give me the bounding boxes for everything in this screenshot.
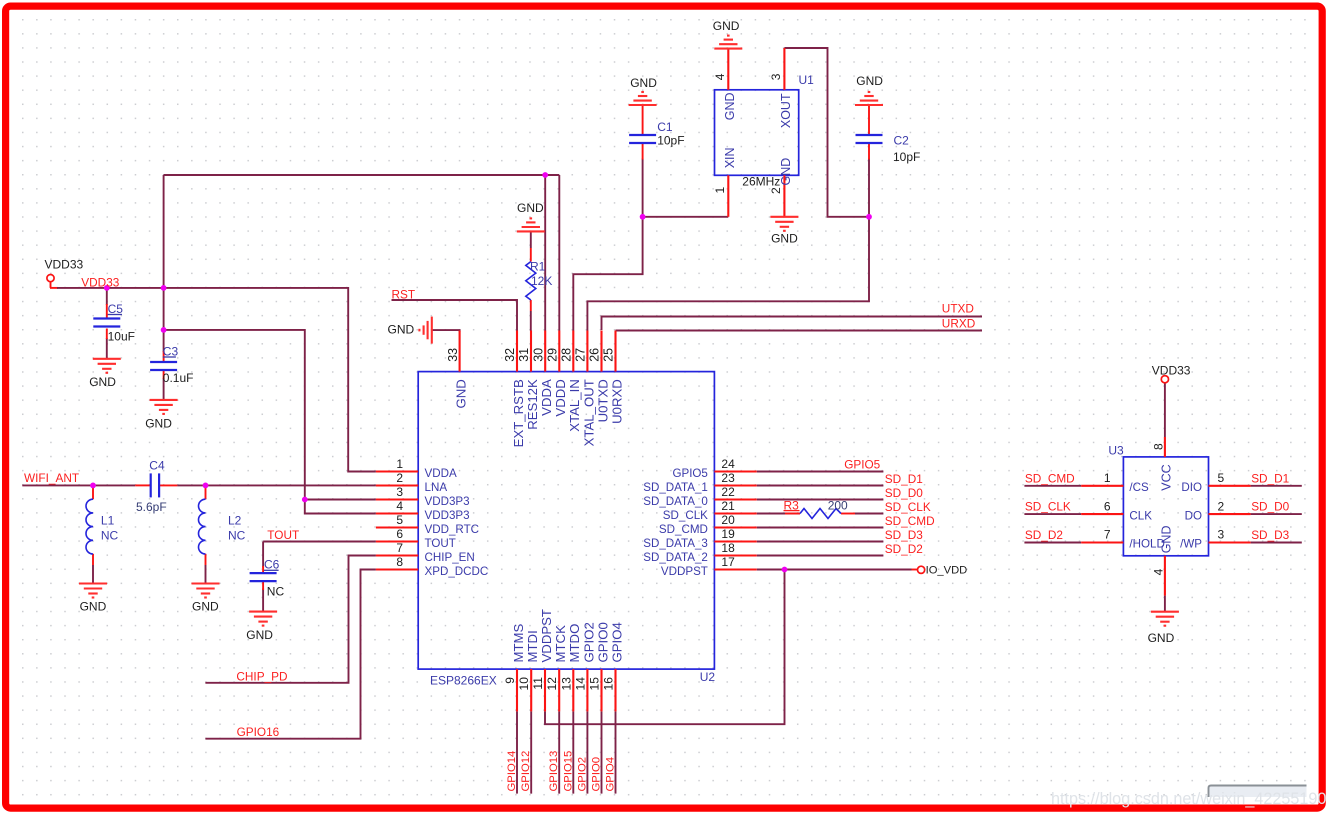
wire WIFI_ANT to LNA [177,484,376,486]
resistor R3 underline [784,510,800,512]
wire XIN horizontal [643,216,729,218]
wire IO_VDD net [757,569,912,571]
wire C4 left lead [135,484,151,486]
wire L1 bottom lead [92,565,94,584]
wire C1 plate lead bottom [642,144,644,160]
svg-text:4: 4 [1151,568,1165,575]
svg-text:https://blog.csdn.net/weixin_4: https://blog.csdn.net/weixin_42255190 [1051,790,1326,808]
svg-text:SD_D3: SD_D3 [885,528,923,542]
svg-text:SD_CMD: SD_CMD [1025,471,1075,485]
wire IO_VDD red tip [912,569,918,571]
svg-text:GPIO5: GPIO5 [844,457,880,471]
svg-text:GND: GND [1148,631,1175,645]
wire SD_CLK net right [855,513,883,515]
svg-text:GND: GND [145,416,172,430]
svg-text:SD_CMD: SD_CMD [885,514,935,528]
svg-text:VDDPST: VDDPST [661,565,708,578]
svg-text:C4: C4 [149,459,165,473]
svg-text:SD_D0: SD_D0 [885,486,923,500]
node IO_VDD terminal [918,566,925,573]
svg-text:U0TXD: U0TXD [595,379,610,422]
wire UTXD net [602,317,983,331]
tooltip box [1209,786,1307,798]
svg-text:U1: U1 [799,73,815,87]
node L2 junction [203,483,209,489]
svg-text:R1: R1 [530,260,546,274]
inductor L2 [198,499,205,554]
capacitor C4 [151,473,159,497]
wire U2 left pin stubs [376,472,418,570]
wire XTAL_OUT net [587,217,869,331]
svg-text:GND: GND [89,375,116,389]
wire CHIP_PD net [205,556,376,683]
svg-text:ESP8266EX: ESP8266EX [430,674,497,688]
wire C3 net [164,330,376,514]
svg-text:L2: L2 [228,514,242,528]
svg-text:31: 31 [517,348,531,362]
svg-text:DIO: DIO [1181,481,1202,494]
svg-text:MTDO: MTDO [567,624,582,663]
op-amp U1 crystal body [715,90,799,176]
svg-text:UTXD: UTXD [942,301,974,315]
svg-text:SD_CLK: SD_CLK [663,509,708,522]
svg-text:GND: GND [246,628,273,642]
svg-text:3: 3 [396,485,403,499]
capacitor C6 underline [264,569,279,571]
svg-text:GPIO5: GPIO5 [672,467,707,480]
svg-text:25: 25 [602,348,616,362]
node XOUT [866,214,872,220]
wire U2 right pin stubs [714,472,756,570]
op-amp U3 flash body [1123,457,1208,556]
wire bottom pin 10 [530,711,532,793]
svg-text:22: 22 [721,485,735,499]
wire WIFI_ANT net [22,484,135,486]
node L1 junction [90,483,96,489]
svg-text:10pF: 10pF [657,134,684,148]
svg-text:SD_D2: SD_D2 [885,542,923,556]
svg-text:24: 24 [721,457,735,471]
svg-text:30: 30 [531,348,545,362]
svg-text:SD_DATA_0: SD_DATA_0 [643,495,708,508]
svg-text:SD_D1: SD_D1 [885,472,923,486]
svg-text:NC: NC [228,529,246,543]
wire C6 bottom lead [262,589,264,612]
svg-text:VDDA: VDDA [539,379,554,416]
wire XTAL_IN net [573,217,642,331]
wire SD_CMD net [757,527,884,529]
svg-text:NC: NC [267,585,285,599]
wire C5 plate lead bottom [106,329,108,340]
svg-text:VDDD: VDDD [553,379,568,416]
svg-text:XTAL_OUT: XTAL_OUT [581,379,596,446]
resistor R1 [526,262,536,300]
ground above C2 [855,92,883,105]
svg-text:GPIO0: GPIO0 [591,757,603,792]
svg-text:RES12K: RES12K [525,379,540,430]
ground below L2 [192,584,220,598]
svg-text:C3: C3 [163,344,179,358]
wire SD_D1 net [757,485,884,487]
wire VDD3P3 pin3 branch [305,499,376,501]
ground above C1 [629,92,657,105]
svg-text:10uF: 10uF [108,329,135,343]
wire R3 left lead [785,513,800,515]
op-amp U2 ESP8266EX body [418,372,714,669]
svg-text:SD_DATA_3: SD_DATA_3 [643,537,708,550]
svg-text:27: 27 [574,348,588,362]
ground below L1 [79,584,107,598]
wire SD_CLK net left [757,513,800,515]
svg-text:GPIO15: GPIO15 [562,751,574,792]
svg-text:C6: C6 [264,558,280,572]
svg-text:TOUT: TOUT [267,528,299,542]
svg-text:26MHz: 26MHz [742,174,780,188]
svg-text:URXD: URXD [942,316,975,330]
node VDD33 rail junction [161,285,167,291]
wire C1 gnd lead [642,105,644,135]
wire GPIO16 net [205,570,376,739]
svg-text:VDD3P3: VDD3P3 [425,495,470,508]
wire VDD33 net [57,288,376,472]
svg-text:VDD33: VDD33 [81,276,119,290]
wire R1 top lead red [530,248,532,262]
svg-text:GND: GND [779,158,793,186]
svg-text:GPIO14: GPIO14 [506,751,518,792]
svg-text:5.6pF: 5.6pF [136,500,167,514]
wire bottom pin 9 [516,711,518,793]
svg-text:15: 15 [588,677,602,691]
wire SD_D2 net [757,555,884,557]
capacitor C5 [93,319,120,327]
node VDDA rail junction [542,172,548,178]
svg-text:CHIP_EN: CHIP_EN [425,551,475,564]
svg-text:GND: GND [80,599,107,613]
wire C5 plate lead top [106,304,108,319]
svg-text:GPIO0: GPIO0 [595,622,610,662]
svg-text:GPIO12: GPIO12 [520,751,532,792]
wire SD_D0 net [757,499,884,501]
wire VDD33 stem [50,281,52,288]
svg-text:21: 21 [721,499,735,513]
svg-text:10: 10 [517,677,531,691]
svg-text:GPIO16: GPIO16 [237,725,280,739]
ground at U2 pin33 [419,317,431,344]
svg-text:GND: GND [517,201,544,215]
svg-text:SD_CLK: SD_CLK [885,500,931,514]
svg-text:13: 13 [559,677,573,691]
wire GPIO5 net [757,471,884,473]
wire XOUT top [784,48,869,217]
resistor R3 [800,509,841,519]
svg-text:VCC: VCC [1160,464,1174,490]
svg-text:WIFI_ANT: WIFI_ANT [24,471,79,485]
wire URXD net [616,330,983,332]
node C3 junction [161,327,167,333]
svg-text:TOUT: TOUT [425,537,456,550]
wire U3 GND lead [1164,596,1166,612]
svg-text:L1: L1 [101,514,115,528]
svg-text:VDD33: VDD33 [1152,363,1191,377]
node XIN [640,214,646,220]
wire VDD33 horizontal [50,287,58,289]
svg-text:3: 3 [1218,528,1225,542]
wire C2 bottom lead [868,159,870,217]
svg-text:19: 19 [721,527,735,541]
svg-text:GND: GND [713,19,740,33]
node C5 junction [104,285,110,291]
svg-text:SD_D2: SD_D2 [1025,528,1063,542]
svg-text:SD_CMD: SD_CMD [659,523,708,536]
wire C2 gnd lead [868,105,870,135]
svg-text:VDD_RTC: VDD_RTC [425,523,480,536]
svg-text:GPIO4: GPIO4 [605,757,617,792]
svg-text:C1: C1 [657,120,673,134]
svg-text:26: 26 [588,348,602,362]
wire VDDD pin29 drop [558,175,560,331]
svg-text:10pF: 10pF [893,150,920,164]
ground below U1 pin2 [770,217,798,231]
ground above U1 pin4 [714,36,742,49]
wire C6 plate lead top [262,566,264,573]
node VDD33 terminal U3 [1161,376,1168,383]
wire C1 bottom lead [642,159,644,217]
wire U2 bottom pin stubs [517,669,616,711]
wire VDDA pin30 drop [544,175,546,331]
wire U3 SD_D1 [1251,485,1302,487]
wire U2 top pin stubs [460,331,616,372]
wire L2 bottom lead [205,565,207,584]
ground above R1 [517,218,545,231]
svg-text:8: 8 [396,555,403,569]
svg-text:29: 29 [546,348,560,362]
svg-text:28: 28 [560,348,574,362]
svg-text:20: 20 [721,513,735,527]
wire SD_D2 to U3 [1024,542,1081,544]
svg-text:8: 8 [1151,443,1165,450]
svg-text:1: 1 [396,457,403,471]
wire VDDPST link [545,570,785,725]
wire C3 plate lead bottom [163,370,165,379]
svg-text:GND: GND [771,232,798,246]
svg-text:5: 5 [1218,471,1225,485]
svg-text:17: 17 [721,555,735,569]
svg-text:GND: GND [454,379,469,408]
wire U3 SD_D0 [1251,513,1302,515]
ground below C5 [93,359,121,373]
wire U1 pin stubs [728,48,784,217]
capacitor C3 underline [163,356,176,358]
wire C5 bottom lead [106,338,108,359]
svg-text:GND: GND [630,76,657,90]
wire SD_CMD to U3 [1024,485,1081,487]
svg-text:11: 11 [531,677,545,690]
capacitor C3 [150,362,177,370]
wire C3 top lead [163,330,165,352]
svg-text:SD_D0: SD_D0 [1251,500,1289,514]
svg-text:XPD_DCDC: XPD_DCDC [425,565,489,578]
capacitor C1 [629,135,656,143]
node VDDPST junction [782,567,788,573]
svg-text:9: 9 [503,677,517,684]
svg-text:LNA: LNA [425,481,448,494]
inductor L1 [86,499,93,554]
wire C3 bottom lead [163,378,165,400]
svg-text:GND: GND [388,323,415,337]
tooltip box border [1209,786,1307,798]
svg-text:SD_CLK: SD_CLK [1025,500,1071,514]
wire R3 right lead [841,513,855,515]
svg-text:GND: GND [856,74,883,88]
svg-text:12K: 12K [531,274,552,288]
wire R1 top lead [530,231,532,248]
svg-text:1: 1 [713,187,727,194]
svg-text:1: 1 [1104,471,1111,485]
wire U3 SD_D3 [1251,542,1302,544]
svg-text:XOUT: XOUT [779,93,793,128]
wire SD_CLK to U3 [1024,513,1081,515]
wire R1 bottom lead [530,311,532,331]
svg-text:RST: RST [392,287,416,301]
wire U3 VDD33 [1164,382,1166,437]
svg-text:NC: NC [101,529,119,543]
svg-text:MTDI: MTDI [525,630,540,662]
svg-text:GND: GND [192,599,219,613]
wire C6 top lead [262,542,264,568]
svg-text:GPIO2: GPIO2 [581,622,596,662]
wire pin33 gnd link [432,330,460,332]
svg-text:SD_DATA_1: SD_DATA_1 [643,481,708,494]
wire bottom pin 16 [615,711,617,793]
svg-text:IO_VDD: IO_VDD [926,565,968,577]
capacitor C5 underline [108,314,122,316]
node VDD3P3 junction [302,497,308,503]
svg-text:U3: U3 [1108,444,1124,458]
svg-text:2: 2 [769,187,783,194]
svg-text:GND: GND [723,93,737,121]
svg-text:GND: GND [1160,526,1174,554]
svg-text:12: 12 [545,677,559,691]
svg-text:16: 16 [602,677,616,691]
wire bottom pin 13 [572,711,574,793]
ground below U3 pin4 [1151,612,1179,626]
svg-text:C5: C5 [108,302,124,316]
svg-text:0.1uF: 0.1uF [163,371,194,385]
svg-text:2: 2 [1218,499,1225,513]
svg-text:EXT_RSTB: EXT_RSTB [511,379,526,447]
svg-text:23: 23 [721,471,735,485]
svg-text:MTCK: MTCK [553,625,568,663]
wire L2 top lead [205,485,207,499]
wire L2 bottom lead red [205,554,207,565]
svg-text:2: 2 [396,471,403,485]
node VDD33 terminal [47,275,54,282]
wire VDD33 rail [164,174,560,176]
svg-text:XIN: XIN [723,147,737,168]
wire RST net [392,300,518,331]
wire C2 plate lead bottom [868,144,870,160]
svg-text:CLK: CLK [1129,509,1152,522]
svg-text:SD_DATA_2: SD_DATA_2 [643,551,708,564]
svg-text:GPIO2: GPIO2 [576,757,588,792]
svg-text:XTAL_IN: XTAL_IN [567,379,582,432]
svg-text:U0RXD: U0RXD [609,379,624,424]
svg-text:DO: DO [1185,509,1202,522]
svg-text:MTMS: MTMS [511,623,526,662]
wire U3 pin stubs [1081,437,1250,596]
svg-text:SD_D1: SD_D1 [1251,471,1289,485]
svg-text:7: 7 [1104,528,1111,542]
ground below C3 [150,400,178,414]
svg-text:4: 4 [713,73,727,80]
svg-text:6: 6 [396,527,403,541]
svg-text:32: 32 [503,348,517,362]
svg-text:VDD3P3: VDD3P3 [425,509,470,522]
wire VDD33 rail riser [163,175,165,330]
wire C5 top lead [106,288,108,305]
svg-text:VDD33: VDD33 [45,258,84,272]
svg-text:6: 6 [1104,499,1111,513]
svg-text:5: 5 [396,513,403,527]
svg-text:33: 33 [446,348,460,362]
wire bottom pin 15 [601,711,603,793]
wire R1 bottom lead red [530,300,532,311]
wire bottom pin 12 [558,711,560,793]
svg-text:GPIO13: GPIO13 [548,751,560,792]
svg-text:C2: C2 [894,133,910,147]
svg-text:200: 200 [828,499,848,513]
wire L1 top lead [92,485,94,499]
svg-text:GPIO4: GPIO4 [609,622,624,662]
wire SD_D3 net [757,541,884,543]
svg-text:CHIP_PD: CHIP_PD [236,669,287,683]
svg-text:18: 18 [721,541,735,555]
svg-text:4: 4 [396,499,403,513]
wire L1 bottom lead red [92,554,94,565]
svg-text:U2: U2 [700,670,716,684]
svg-text:VDDPST: VDDPST [539,609,554,663]
wire TOUT net [263,541,376,543]
wire C6 plate lead bottom [262,581,264,590]
capacitor C6 [250,573,277,581]
ground below C6 [249,612,277,626]
svg-text:/CS: /CS [1129,481,1149,494]
svg-text:3: 3 [769,73,783,80]
capacitor C2 [856,135,883,143]
wire C4 right lead [159,484,177,486]
svg-text:7: 7 [396,541,403,555]
wire C3 plate lead top [163,351,165,362]
svg-text:14: 14 [573,677,587,691]
wire bottom pin 14 [586,711,588,793]
svg-text:/WP: /WP [1180,538,1202,551]
svg-text:VDDA: VDDA [425,467,457,480]
svg-text:SD_D3: SD_D3 [1251,528,1289,542]
